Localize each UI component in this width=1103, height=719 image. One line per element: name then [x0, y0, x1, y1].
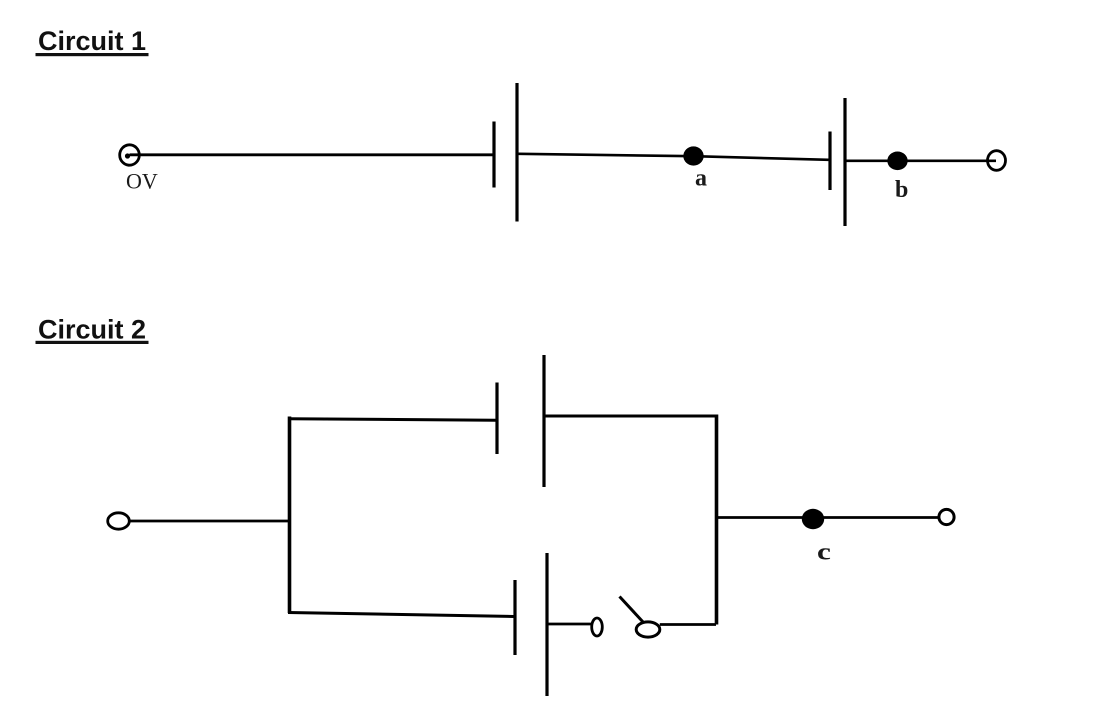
- terminal (left, circuit 2): [108, 513, 130, 529]
- svg-text:Circuit 1: Circuit 1: [38, 26, 146, 56]
- title Circuit 2: [36, 315, 149, 345]
- svg-text:OV: OV: [126, 168, 158, 193]
- wire: left terminal to junction bus: [129, 520, 290, 523]
- battery B3 positive plate: [542, 355, 545, 487]
- wire: output from right bus to right terminal: [717, 516, 940, 519]
- node c: [802, 509, 824, 529]
- switch contact (left post): [592, 618, 603, 636]
- battery B3 negative plate: [495, 383, 498, 455]
- svg-text:a: a: [695, 166, 707, 192]
- wire: battery B2 to right terminal: [847, 160, 997, 163]
- wire: switch to right bus: [660, 623, 716, 626]
- terminal (right, circuit 1): [988, 151, 1006, 171]
- wire: bottom branch from junction bus to battery B4: [288, 613, 514, 617]
- switch contact (right post): [636, 622, 660, 637]
- wire: battery B1 to battery B2 (through node a): [519, 154, 829, 160]
- node a: [683, 146, 703, 165]
- wire: battery B3 to right bus: [546, 415, 719, 418]
- battery B2 negative plate: [828, 132, 831, 191]
- battery B1 positive plate: [515, 83, 518, 222]
- wire: left terminal to battery B1: [130, 153, 493, 156]
- junction bus (left vertical): [288, 417, 292, 614]
- battery B4 negative plate: [513, 580, 516, 655]
- svg-text:b: b: [895, 177, 908, 203]
- svg-text:Circuit 2: Circuit 2: [38, 315, 146, 345]
- node b: [887, 152, 907, 171]
- bus (right vertical): [715, 415, 719, 625]
- battery B1 negative plate: [492, 122, 495, 188]
- svg-text:c: c: [817, 539, 831, 566]
- battery B4 positive plate: [545, 553, 548, 696]
- switch lever: [620, 597, 644, 623]
- wire: battery B4 to switch: [549, 623, 592, 626]
- battery B2 positive plate: [843, 98, 846, 226]
- wire: top branch to battery B3: [288, 419, 496, 420]
- terminal (right, circuit 2): [939, 509, 954, 524]
- terminal OV (left, circuit 1): [120, 145, 140, 165]
- title Circuit 1: [36, 26, 149, 56]
